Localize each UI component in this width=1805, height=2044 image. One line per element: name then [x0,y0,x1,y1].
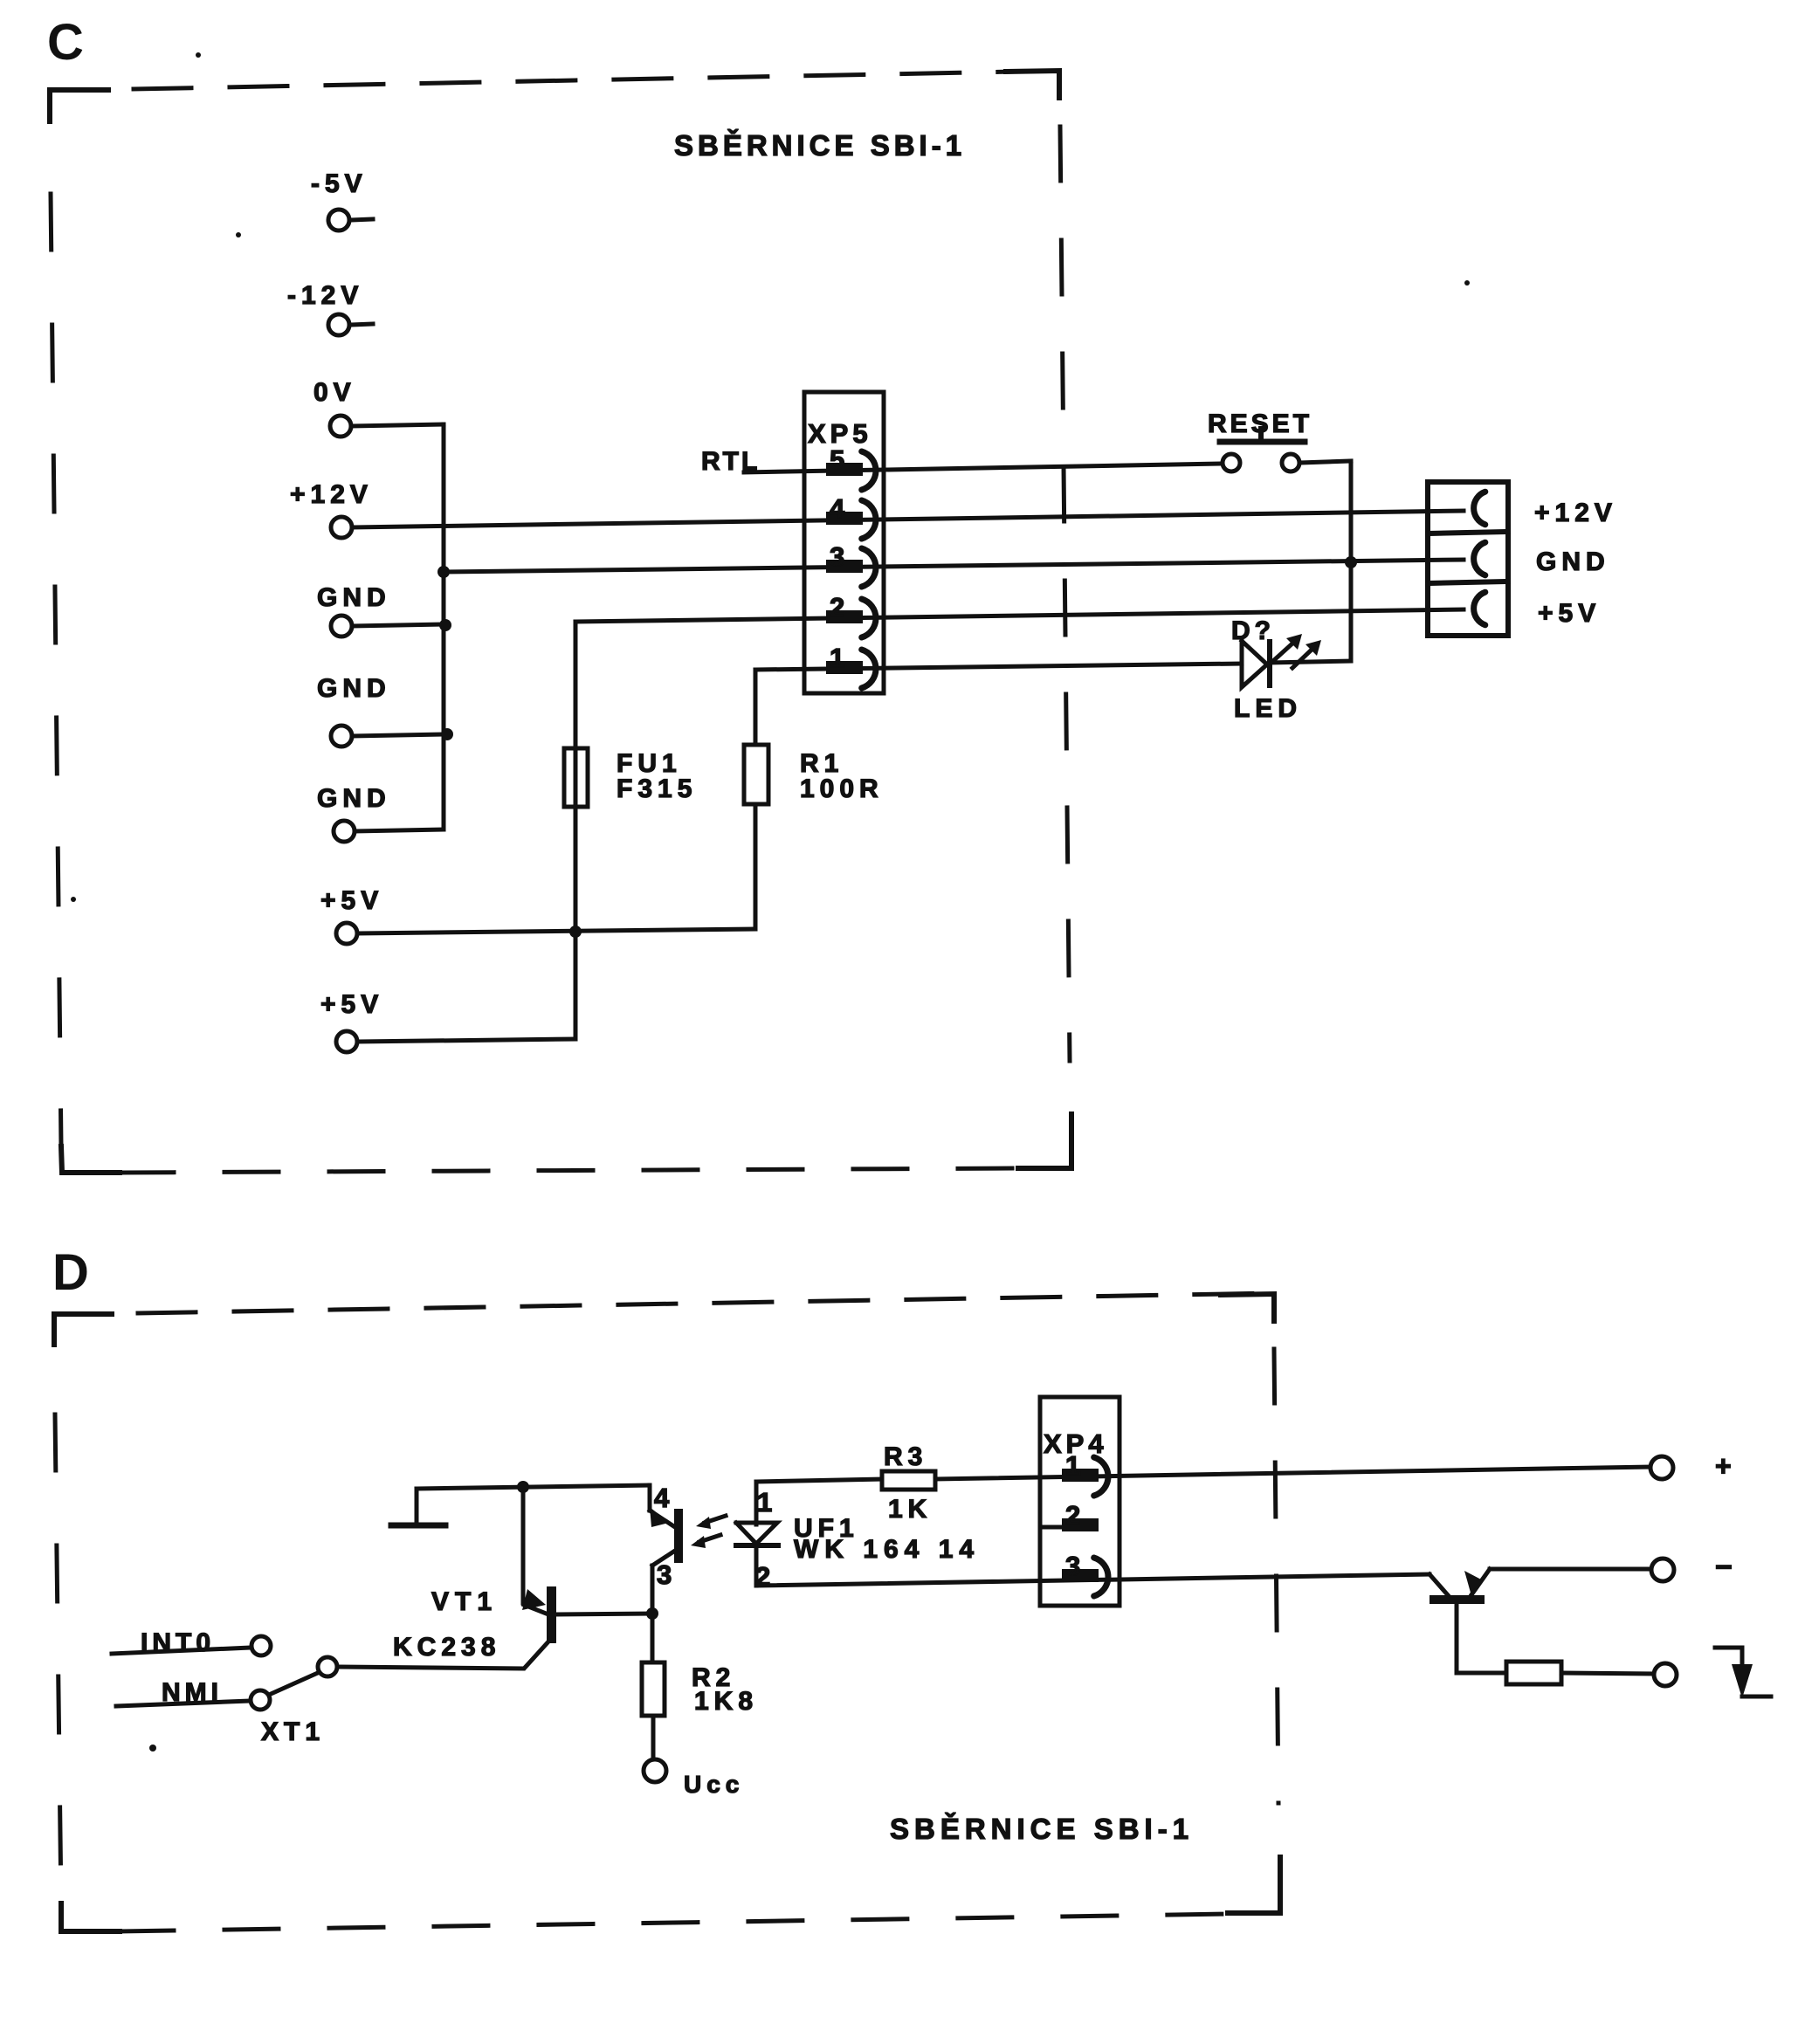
svg-text:+: + [1715,1450,1732,1482]
svg-text:D: D [52,1244,89,1301]
svg-text:2: 2 [1065,1500,1080,1531]
svg-text:SBĚRNICE SBI-1: SBĚRNICE SBI-1 [890,1813,1194,1845]
svg-text:1K8: 1K8 [694,1687,758,1716]
svg-text:0V: 0V [313,378,356,407]
svg-text:1: 1 [830,643,844,673]
svg-text:+5V: +5V [1538,599,1601,628]
svg-text:1: 1 [757,1487,772,1518]
svg-text:VT1: VT1 [431,1587,498,1616]
svg-text:F315: F315 [617,774,697,803]
svg-text:GND: GND [317,583,391,612]
svg-text:1: 1 [1065,1450,1080,1481]
svg-text:1K: 1K [888,1495,932,1524]
svg-text:+12V: +12V [290,480,373,509]
svg-text:5: 5 [830,444,844,475]
svg-text:KC238: KC238 [393,1633,500,1662]
svg-text:WK 164 14: WK 164 14 [794,1535,980,1564]
svg-text:+5V: +5V [320,990,383,1019]
svg-text:3: 3 [1065,1551,1080,1581]
svg-text:XT1: XT1 [261,1717,325,1746]
svg-text:2: 2 [830,592,844,623]
svg-text:100R: 100R [800,774,884,803]
svg-text:4: 4 [830,493,845,524]
svg-text:+12V: +12V [1534,499,1617,527]
svg-text:R3: R3 [884,1442,927,1471]
svg-text:-12V: -12V [287,281,363,310]
svg-text:4: 4 [654,1483,670,1513]
svg-text:+5V: +5V [320,886,383,915]
svg-text:SBĚRNICE SBI-1: SBĚRNICE SBI-1 [674,129,966,162]
svg-text:−: − [1715,1551,1733,1584]
svg-text:C: C [47,14,84,71]
svg-text:RTL: RTL [701,447,760,476]
svg-text:GND: GND [317,674,391,703]
svg-text:Ucc: Ucc [684,1771,744,1798]
svg-text:GND: GND [317,784,391,813]
svg-text:-5V: -5V [311,169,368,198]
svg-text:LED: LED [1234,694,1302,723]
svg-text:3: 3 [830,541,844,572]
svg-text:3: 3 [657,1559,672,1590]
svg-text:GND: GND [1536,547,1610,576]
